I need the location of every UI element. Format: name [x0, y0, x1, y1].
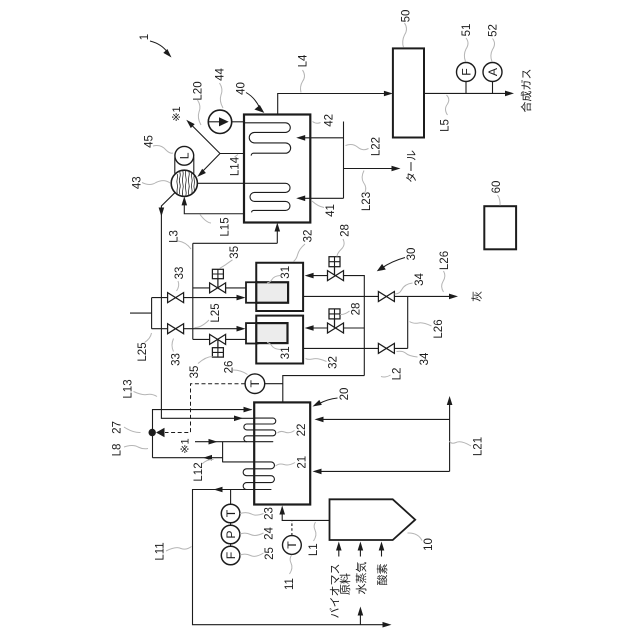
leader arrow for 1	[150, 41, 168, 53]
svg-text:31: 31	[280, 346, 292, 359]
wire L14 junction diagonals	[191, 124, 245, 175]
feed line oxygen	[381, 545, 383, 557]
wire ash line with valve34 top	[303, 295, 453, 297]
svg-text:21: 21	[296, 456, 308, 469]
wire valve28 bottom line	[309, 327, 364, 329]
arrow L21 upper into box20	[315, 417, 324, 423]
analyzer circle 52 (A)	[483, 63, 502, 82]
svg-text:F: F	[224, 551, 238, 559]
svg-text:33: 33	[171, 353, 183, 366]
svg-text:11: 11	[284, 578, 296, 590]
flow meter circle 25 (F)	[221, 546, 240, 565]
svg-text:L25: L25	[210, 303, 222, 322]
svg-text:35: 35	[189, 366, 201, 379]
arrow gas into 40 lower	[296, 196, 305, 202]
thermometer circle 23 (T)	[221, 504, 240, 523]
svg-text:L21: L21	[473, 437, 485, 456]
drum 43 hatching	[177, 170, 195, 196]
svg-text:タール: タール	[405, 150, 418, 183]
svg-text:52: 52	[488, 24, 500, 37]
svg-text:28: 28	[340, 224, 352, 237]
arrow ash out	[449, 294, 458, 300]
svg-text:35: 35	[229, 246, 241, 259]
svg-text:T: T	[224, 509, 238, 517]
svg-text:24: 24	[264, 527, 276, 540]
wire valve33 bottom line	[152, 328, 241, 330]
svg-text:酸素: 酸素	[375, 564, 389, 586]
svg-text:43: 43	[132, 176, 144, 189]
svg-text:L12: L12	[193, 462, 205, 481]
svg-text:32: 32	[303, 230, 315, 243]
svg-text:10: 10	[423, 538, 435, 551]
wire L21 loop	[316, 401, 450, 472]
arrow up steam branch	[358, 607, 364, 616]
feed line steam	[359, 545, 361, 557]
arrow into 32 top right	[305, 273, 314, 279]
svg-text:L22: L22	[371, 137, 383, 156]
stem of flow meter 51	[465, 82, 467, 94]
wire L15 drum bottom	[184, 200, 244, 214]
valve 35 top with actuator	[210, 283, 226, 293]
svg-text:※1: ※1	[171, 106, 183, 121]
arrow into box20 topleft line A	[244, 407, 253, 413]
svg-text:L8: L8	[112, 444, 124, 457]
svg-text:41: 41	[325, 204, 337, 217]
svg-text:28: 28	[351, 303, 363, 316]
svg-text:32: 32	[328, 356, 340, 369]
arrow tar out	[392, 166, 401, 172]
wire drum 43 outlet to L3	[161, 193, 254, 419]
svg-text:A: A	[486, 67, 500, 76]
svg-text:L26: L26	[439, 251, 451, 270]
reformer bottom: inlet nozzle	[246, 323, 258, 343]
valve 28 top with actuator	[328, 271, 344, 281]
wire valve28 top line	[309, 276, 364, 376]
thermometer circle 26 (T)	[245, 374, 265, 394]
arrow into 40 bottom	[275, 223, 281, 232]
wire from valve 27 riser into box 20	[153, 410, 252, 458]
wire L1 gasifier to box 20	[282, 509, 329, 521]
wire *1 stub lower	[195, 441, 247, 443]
svg-text:50: 50	[401, 10, 413, 23]
wire gas line to 40 bottom	[193, 227, 277, 243]
svg-text:30: 30	[406, 248, 418, 261]
arrow biomass feed	[336, 542, 342, 551]
wire drum 43 right to box 40	[197, 182, 244, 184]
gasifier 10 pentagon	[330, 499, 416, 540]
arrow inside pump 44	[219, 117, 229, 126]
valve 28 bottom with actuator	[328, 323, 344, 333]
svg-text:51: 51	[461, 24, 473, 37]
drum 43	[171, 170, 197, 196]
arrow left on L11 exit	[214, 487, 223, 493]
svg-text:L: L	[178, 152, 192, 159]
coil 41 (bottom spray coil in 40)	[245, 183, 290, 212]
wire L4 (40 top to 50)	[278, 94, 389, 115]
wire tar outlet L23	[344, 168, 397, 170]
level gauge 45 circle (L)	[175, 146, 194, 165]
svg-text:L26: L26	[433, 319, 445, 338]
wire valve35 top line	[193, 287, 246, 289]
svg-text:T: T	[248, 379, 262, 387]
reformer bottom: outer box 32	[256, 316, 303, 364]
gauge stand lines between 45 and 43	[175, 158, 194, 174]
wire L2 from box 20	[283, 376, 365, 403]
wire steam branch from L11	[359, 611, 361, 625]
wire L11 L12 loop	[193, 490, 388, 625]
wire gas line into 40 lower	[300, 197, 344, 199]
check valve 27	[149, 428, 165, 438]
arrow left on recirc line	[203, 455, 212, 461]
svg-text:60: 60	[491, 181, 503, 194]
wire L3 center vertical to purge valves	[192, 243, 194, 339]
arrow down on L3	[159, 208, 165, 217]
svg-text:L1: L1	[308, 543, 320, 556]
valve 34 bottom	[378, 343, 394, 353]
arrow into drum top	[197, 169, 206, 177]
wire valve35 bottom line	[193, 338, 246, 340]
arrow L21 lower into box20	[313, 469, 322, 475]
arrow gas into 40 upper	[296, 135, 305, 141]
svg-text:44: 44	[215, 68, 227, 81]
wire L22 manifold right of 40	[343, 122, 345, 199]
svg-text:合成ガス: 合成ガス	[519, 69, 533, 113]
svg-text:L11: L11	[155, 542, 167, 560]
reformer bottom: catalyst bed 31	[256, 323, 287, 343]
svg-text:27: 27	[112, 421, 124, 434]
arrow to *1 top	[186, 120, 194, 128]
pump 44 circle	[208, 110, 231, 133]
svg-text:22: 22	[296, 424, 308, 437]
reformer top: inlet nozzle	[246, 282, 258, 303]
condenser box 50	[393, 48, 424, 137]
svg-text:26: 26	[224, 361, 236, 374]
svg-text:23: 23	[264, 507, 276, 520]
svg-text:灰: 灰	[470, 291, 484, 302]
svg-text:40: 40	[236, 82, 248, 95]
wire valve33 top line	[152, 297, 241, 299]
bracket L25 left	[130, 298, 152, 329]
reformer top: catalyst bed 31	[256, 282, 288, 303]
arrow syngas out	[505, 91, 514, 97]
svg-text:1: 1	[139, 34, 151, 40]
svg-text:25: 25	[264, 547, 276, 560]
svg-text:20: 20	[339, 388, 351, 401]
flow meter circle 51 (F)	[457, 63, 476, 82]
arrow into coil22 inlet	[234, 416, 243, 422]
svg-text:34: 34	[414, 273, 426, 286]
svg-text:L13: L13	[123, 379, 135, 398]
svg-text:31: 31	[280, 266, 292, 279]
arrow oxygen feed	[379, 542, 385, 551]
svg-text:原料: 原料	[338, 573, 352, 595]
arrow into drum bottom	[182, 196, 188, 205]
stub to instruments 23 24 25	[230, 490, 232, 505]
stem of analyzer 52	[492, 82, 494, 94]
coil 21 in box 20	[223, 462, 275, 490]
arrow into box 50	[384, 91, 393, 97]
svg-text:水蒸気: 水蒸気	[354, 562, 368, 595]
arrow into nozzle bottom	[237, 326, 246, 332]
valve 33 top	[168, 293, 184, 303]
stem T11	[291, 520, 293, 535]
wire T26 to L2 riser	[265, 383, 283, 385]
svg-text:F: F	[459, 68, 473, 76]
wire pump 44 to box 40	[232, 121, 244, 123]
arrow into box20 bottom	[279, 506, 285, 515]
pressure gauge circle 24 (P)	[221, 525, 240, 544]
svg-text:※1: ※1	[179, 438, 191, 453]
scrubber box 40	[244, 115, 310, 223]
reformer box 20	[254, 402, 310, 504]
svg-text:42: 42	[324, 114, 336, 127]
svg-text:L15: L15	[219, 217, 231, 236]
feed line biomass	[338, 545, 340, 557]
box 60	[484, 206, 516, 249]
arrow steam feed	[358, 542, 364, 551]
arrow right at L11 end	[383, 622, 392, 628]
svg-text:L14: L14	[230, 156, 242, 176]
arrow into 32 bottom right	[305, 325, 314, 331]
svg-text:34: 34	[419, 352, 431, 365]
svg-text:33: 33	[174, 267, 186, 280]
wire L5 (50 to syngas out)	[424, 92, 510, 94]
thermometer circle 11 (T)	[283, 536, 302, 555]
svg-text:P: P	[224, 530, 238, 538]
svg-text:L20: L20	[193, 81, 205, 100]
arrow into nozzle top	[237, 295, 246, 301]
valve 35 bottom with actuator	[210, 334, 226, 344]
valve 34 top	[378, 292, 394, 302]
wire gas line into 40 upper	[300, 137, 344, 139]
svg-text:L4: L4	[298, 54, 310, 67]
valve 33 bottom	[168, 324, 184, 334]
svg-text:L25: L25	[137, 342, 149, 361]
wire recirc line L8	[153, 442, 223, 462]
svg-text:L2: L2	[392, 368, 404, 381]
arrow *1 lower stub	[209, 439, 218, 445]
wire valve34 bottom line	[303, 296, 408, 348]
dashed signal line 26 to valve 27	[165, 384, 245, 433]
reformer top: outer box 32	[256, 263, 303, 311]
svg-text:L5: L5	[440, 119, 452, 132]
coil 42 (top spray coil in 40)	[245, 123, 291, 156]
svg-text:T: T	[285, 541, 299, 549]
coil 22 in box 20	[244, 418, 276, 442]
svg-text:L23: L23	[361, 192, 373, 211]
arrow L21 top stub	[447, 396, 453, 405]
